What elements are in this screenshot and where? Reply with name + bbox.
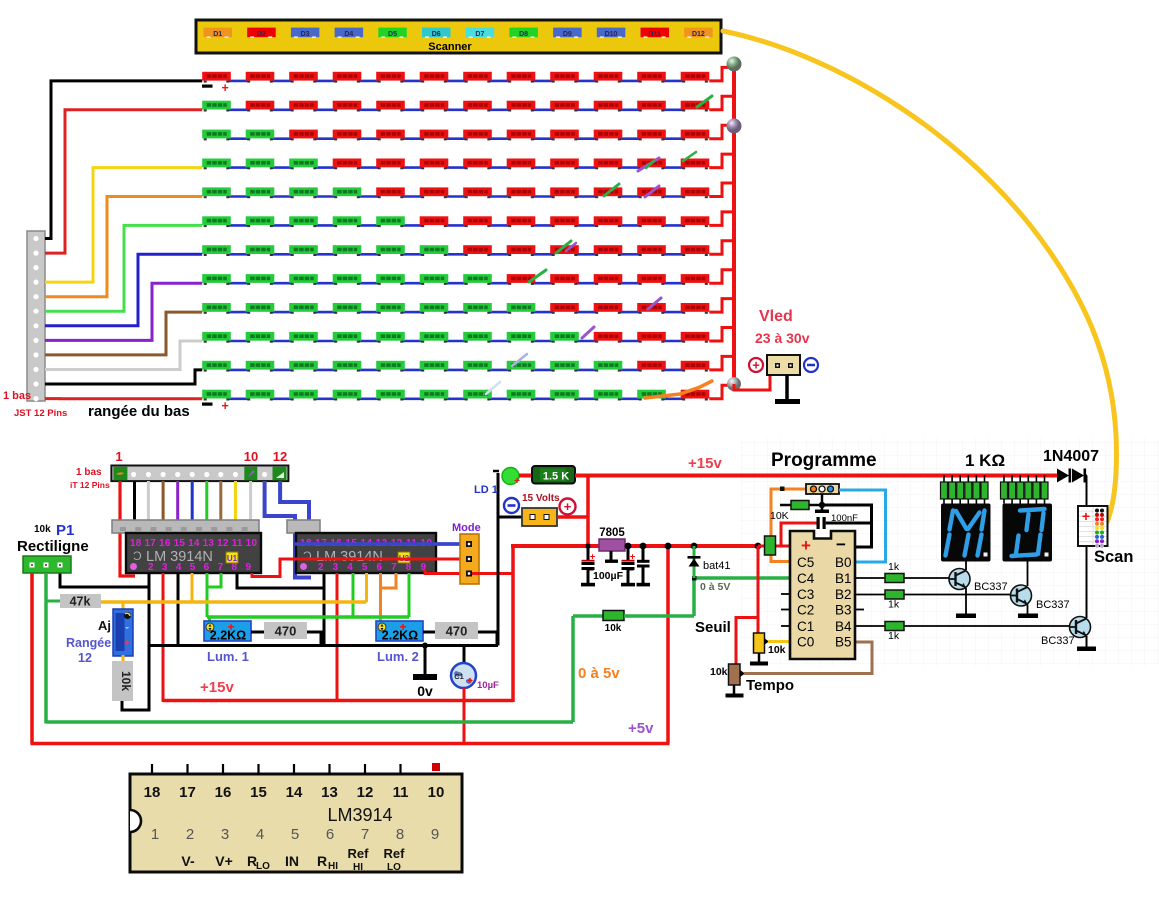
resistor 10k (green, 0-5V) (603, 611, 624, 621)
wire scan vertical (1086, 476, 1088, 619)
LED row7 col12 (681, 245, 710, 256)
wire strip pin11 blue to chip2 (265, 481, 311, 578)
svg-text:+: + (630, 552, 636, 563)
LED row2 col4 (333, 101, 362, 112)
minus symbol Vled (804, 358, 818, 372)
LED row3 col2 (246, 130, 275, 141)
wire row 1 to Vled bus (709, 67, 734, 81)
LED row8 col8 (507, 274, 536, 285)
wire strip drop x220 (219, 481, 222, 521)
LED row4 col8 (507, 159, 536, 170)
svg-text:iT 12 Pins: iT 12 Pins (70, 480, 110, 490)
ground T2 (1018, 614, 1038, 619)
wire black P1 pin3 (60, 572, 149, 587)
wire green chip2 pin4 (352, 573, 355, 617)
wire cyan B0 (839, 490, 886, 562)
wire red +5v down branch (666, 546, 670, 744)
LED row4 col9 (550, 159, 579, 170)
ground Tempo (733, 685, 736, 694)
junction sphere bottom (727, 377, 741, 391)
svg-text:D2: D2 (257, 31, 266, 38)
resistor 10k vertical (112, 661, 133, 701)
ground Vled (785, 375, 789, 400)
LED row10 col11 (637, 332, 666, 343)
LED row2 col10 (594, 101, 623, 112)
svg-text:+: + (124, 638, 130, 649)
LED row5 col7 (463, 187, 492, 198)
LED row8 col7 (463, 274, 492, 285)
LED row2 col8 (507, 101, 536, 112)
wire row 8 to Vled bus (709, 270, 734, 284)
wire red Tempo branch (736, 618, 758, 667)
LED row12 col3 (289, 390, 318, 401)
wire red chip1 pin9 to Mode (252, 559, 466, 577)
svg-text:1 bas: 1 bas (3, 390, 31, 402)
LED row10 col2 (246, 332, 275, 343)
wire blue to Mode pin1 (295, 542, 466, 546)
svg-text:C3: C3 (797, 587, 814, 602)
svg-text:IN: IN (285, 853, 299, 869)
Vled bus (732, 63, 736, 385)
svg-text:0 à 5V: 0 à 5V (700, 581, 730, 593)
LED row9 col6 (420, 303, 449, 314)
LED row9 col4 (333, 303, 362, 314)
svg-text:1k: 1k (888, 599, 900, 611)
wire black chip1 pin4 (177, 573, 180, 646)
LED row8 col5 (376, 274, 405, 285)
connector strip 1 bas (iT 12 pins) (111, 466, 288, 482)
wire JST pin12 to row 12 (red) (45, 397, 202, 400)
LED row1 col4 (333, 72, 362, 83)
wire row 10 to Vled bus (709, 328, 734, 342)
LED row11 col6 (420, 361, 449, 372)
ground T3 (1077, 647, 1096, 652)
IC U2 LM3914N (296, 533, 436, 573)
LED row7 col3 (289, 245, 318, 256)
diode bat41 (693, 546, 696, 578)
junction dot 0v (422, 643, 428, 649)
LED row5 col1 (202, 187, 231, 198)
LED row11 col7 (463, 361, 492, 372)
svg-text:D7: D7 (475, 31, 484, 38)
svg-text:C4: C4 (797, 571, 815, 586)
svg-text:13: 13 (321, 784, 338, 801)
wire row 4 series (blue) (228, 166, 684, 169)
svg-text:C5: C5 (797, 555, 814, 570)
wire JST pin5 to row 5 (45, 197, 202, 297)
LED row7 col6 (420, 245, 449, 256)
wire B4 to T3 (855, 625, 1070, 627)
svg-text:10k: 10k (605, 623, 622, 634)
LED row12 col12 (681, 390, 710, 401)
svg-text:8: 8 (396, 826, 404, 843)
LED row3 col1 (202, 130, 231, 141)
LED row3 col3 (289, 130, 318, 141)
svg-text:1N4007: 1N4007 (1043, 448, 1099, 465)
wire red chip2 pin9 to Mode bottom (425, 570, 513, 574)
svg-text:Vled: Vled (759, 308, 793, 325)
LED row10 col5 (376, 332, 405, 343)
wire green P1 wiper down (44, 573, 48, 724)
svg-text:Scan: Scan (1094, 548, 1133, 566)
svg-text:3: 3 (221, 826, 229, 843)
svg-text:1k: 1k (888, 630, 900, 642)
wire red P1 left down (30, 573, 34, 744)
scan artifacts (486, 96, 712, 394)
LED row4 col1 (202, 159, 231, 170)
LED row9 col3 (289, 303, 318, 314)
pinout top numbers (144, 784, 445, 801)
wire row 4 to Vled bus (709, 154, 734, 168)
svg-text:14: 14 (286, 784, 303, 801)
svg-text:9: 9 (431, 826, 439, 843)
LED row8 col2 (246, 274, 275, 285)
wire JST pin1 to row 1 (45, 81, 202, 239)
capacitor 100uF no2 (627, 546, 630, 561)
svg-text:B5: B5 (835, 635, 852, 650)
LED row7 col4 (333, 245, 362, 256)
scanner LED D3 (291, 28, 320, 38)
LED row1 col10 (594, 72, 623, 83)
trimmer Aj (113, 609, 133, 656)
LED row9 col8 (507, 303, 536, 314)
LED row1 col6 (420, 72, 449, 83)
resistor 470 no1 (251, 631, 264, 634)
wire red LD1 to 1.5K (519, 474, 533, 478)
wire JST pin7 to row 7 (45, 254, 202, 325)
svg-text:15: 15 (250, 784, 267, 801)
svg-text:JST 12 Pins: JST 12 Pins (14, 408, 67, 419)
green bus P1 to C4 (46, 720, 573, 724)
svg-text:+: + (467, 676, 473, 687)
wire red 5v rail (511, 544, 758, 548)
svg-text:D1: D1 (213, 31, 222, 38)
svg-text:15 Volts: 15 Volts (522, 493, 560, 504)
wire row 5 to Vled bus (709, 183, 734, 197)
LED row4 col10 (594, 159, 623, 170)
svg-text:B3: B3 (835, 603, 852, 618)
trimmer 2.2K no1 (204, 621, 251, 641)
LED row11 col5 (376, 361, 405, 372)
svg-text:10k: 10k (34, 524, 51, 535)
yellow tap to Aj (122, 602, 125, 610)
svg-text:B0: B0 (835, 555, 852, 570)
svg-text:+: + (1082, 508, 1090, 524)
svg-text:B4: B4 (835, 619, 852, 634)
LED row2 col2 (246, 101, 275, 112)
svg-text:V+: V+ (215, 853, 233, 869)
scanner LED D4 (335, 28, 364, 38)
wire strip drop x177 (176, 481, 179, 521)
LED row12 col11 (637, 390, 666, 401)
wire red Seuil vertical (757, 546, 760, 634)
wire green chip1 pin6 (206, 573, 209, 617)
LED row2 col1 (202, 101, 231, 112)
connector Vled (767, 355, 800, 375)
svg-text:18 17 16 15 14 13 12 11 10: 18 17 16 15 14 13 12 11 10 (130, 538, 257, 549)
socket U1 (112, 520, 259, 533)
svg-text:1 bas: 1 bas (76, 467, 102, 478)
wire row 12 to Vled bus (709, 385, 734, 399)
resistor 470 no2 (423, 631, 435, 634)
wire green jumper pins6-7 (208, 573, 221, 587)
LED row5 col6 (420, 187, 449, 198)
row12 polarity labels (202, 403, 213, 406)
wire black chip1/P1/10k vertical (122, 573, 149, 710)
svg-text:+: + (590, 552, 596, 563)
svg-text:D3: D3 (301, 31, 310, 38)
svg-text:LD 1: LD 1 (474, 484, 498, 496)
LED row8 col9 (550, 274, 579, 285)
svg-text:+: + (222, 399, 229, 413)
LED row12 col1 (202, 390, 231, 401)
scanner LED D1 (204, 28, 233, 38)
svg-text:+15v: +15v (200, 679, 234, 696)
LED row9 col9 (550, 303, 579, 314)
LED row1 col2 (246, 72, 275, 83)
svg-text:4: 4 (256, 826, 264, 843)
svg-text:C0: C0 (797, 635, 814, 650)
svg-text:1: 1 (151, 826, 159, 843)
wire red 15V connector to branch (557, 515, 588, 519)
svg-text:D8: D8 (519, 31, 528, 38)
svg-text:HI: HI (353, 862, 363, 873)
pin stub B3 (855, 609, 864, 611)
resistor Seuil 10k (yellow) (754, 633, 765, 653)
wire yellow Aj to 10k (122, 655, 125, 662)
LED row9 col1 (202, 303, 231, 314)
wire yellow chip2 pin6 (365, 573, 368, 602)
svg-text:7: 7 (361, 826, 369, 843)
wire bus to Vled connector (734, 376, 770, 390)
wire orange C5 net (771, 489, 806, 562)
svg-text:10k: 10k (768, 644, 786, 656)
pinout box LM3914 (130, 774, 462, 872)
svg-text:Ɔ: Ɔ (133, 549, 142, 563)
ground T1 (956, 614, 976, 619)
LED row6 col5 (376, 216, 405, 227)
LED row10 col12 (681, 332, 710, 343)
svg-text:10K: 10K (770, 510, 789, 522)
LED row6 col7 (463, 216, 492, 227)
scanner LED D12 (684, 28, 713, 38)
svg-text:+15v: +15v (688, 455, 722, 472)
wire row 6 to Vled bus (709, 212, 734, 226)
svg-text:10: 10 (244, 449, 258, 464)
row1 polarity labels (202, 85, 213, 88)
svg-text:18: 18 (144, 784, 161, 801)
yellow bus (99, 600, 367, 604)
wire row 12 series (blue) (228, 397, 684, 400)
scanner LED D5 (378, 28, 407, 38)
svg-text:2.2KΩ: 2.2KΩ (210, 629, 246, 643)
svg-text:17: 17 (179, 784, 196, 801)
LED row2 col7 (463, 101, 492, 112)
junction dots 5v rail (586, 544, 590, 548)
LED row11 col1 (202, 361, 231, 372)
scanner LED D2 (247, 28, 276, 38)
svg-text:LM3914: LM3914 (327, 805, 392, 825)
resistor Tempo 10k (brown) (729, 664, 741, 685)
LED row2 col5 (376, 101, 405, 112)
LED row10 col3 (289, 332, 318, 343)
wire JST pin10 to row 10 (45, 341, 202, 370)
svg-text:1 KΩ: 1 KΩ (965, 451, 1005, 470)
potentiometer P1 (23, 556, 71, 573)
wire blue to Mode pin1 (over U2) (295, 542, 466, 546)
scanner LED D7 (466, 28, 495, 38)
scanner LED D8 (509, 28, 538, 38)
LED row12 col5 (376, 390, 405, 401)
LED row5 col9 (550, 187, 579, 198)
LED row10 col7 (463, 332, 492, 343)
LED row3 col4 (333, 130, 362, 141)
resistor 1k B1 (885, 574, 904, 583)
LED row5 col4 (333, 187, 362, 198)
plus symbol 15V (560, 499, 576, 515)
svg-text:2 3 4 5 6 7 8 9: 2 3 4 5 6 7 8 9 (318, 562, 426, 573)
wire black cap loop (822, 505, 872, 547)
LED row5 col12 (681, 187, 710, 198)
svg-text:1: 1 (115, 449, 122, 464)
scanner LED D11 (641, 28, 670, 38)
LED row11 col8 (507, 361, 536, 372)
LED row4 col4 (333, 159, 362, 170)
junction sphere mid (727, 119, 742, 134)
LED row8 col4 (333, 274, 362, 285)
ground Seuil (758, 653, 761, 662)
LED LD1 (493, 470, 499, 473)
LED row7 col1 (202, 245, 231, 256)
svg-text:+: + (801, 536, 811, 555)
LED row10 col9 (550, 332, 579, 343)
svg-text:Ɔ: Ɔ (303, 549, 312, 563)
display 2 (D) (1003, 504, 1053, 562)
LED row7 col8 (507, 245, 536, 256)
LED row1 col8 (507, 72, 536, 83)
LED row1 col7 (463, 72, 492, 83)
transistor Q2 BC337 (1011, 585, 1032, 606)
svg-text:Tempo: Tempo (746, 677, 794, 694)
svg-text:Lum. 1: Lum. 1 (207, 649, 249, 664)
svg-text:5: 5 (291, 826, 299, 843)
wire strip drop x134 (133, 481, 136, 521)
svg-text:470: 470 (446, 624, 468, 639)
black 0v bus (149, 644, 498, 647)
LED row1 col11 (637, 72, 666, 83)
wire T2 emitter (1027, 605, 1029, 615)
green tap 2.2K no1 (208, 617, 211, 622)
wire scan curve (723, 31, 1116, 522)
wire red to + pin (758, 545, 791, 548)
svg-text:100nF: 100nF (831, 513, 858, 524)
wire row 3 to Vled bus (709, 125, 734, 139)
LED row6 col1 (202, 216, 231, 227)
LED row4 col2 (246, 159, 275, 170)
wire green to 47k (46, 600, 60, 603)
connector JST 12 pins (27, 231, 45, 401)
svg-text:LO: LO (387, 862, 401, 873)
LED row8 col12 (681, 274, 710, 285)
LED row2 col3 (289, 101, 318, 112)
LED row12 col6 (420, 390, 449, 401)
resistor 1k B4 (885, 622, 904, 631)
svg-text:1.5 K: 1.5 K (543, 471, 569, 483)
ground 0v (424, 645, 427, 675)
IC U1 LM3914N (126, 533, 261, 573)
pinout top ticks (152, 764, 401, 775)
wire JST pin4 to row 4 (45, 168, 202, 283)
svg-text:2: 2 (186, 826, 194, 843)
wire row 7 to Vled bus (709, 241, 734, 255)
svg-text:47k: 47k (70, 595, 91, 609)
svg-text:+: + (222, 81, 229, 95)
wire row 3 series (blue) (228, 137, 684, 140)
LED row9 col5 (376, 303, 405, 314)
wire yellow chip1 pin5 (191, 573, 194, 602)
wire red branch to 7805 bus (586, 476, 590, 547)
pin stubs C3 C2 C1 (781, 593, 790, 595)
wire brown B5 to Tempo (744, 642, 872, 674)
wire JST pin6 to row 6 (45, 225, 202, 311)
svg-text:B1: B1 (835, 571, 852, 586)
svg-text:D6: D6 (432, 31, 441, 38)
LED row10 col6 (420, 332, 449, 343)
svg-text:C2: C2 (797, 603, 814, 618)
wire orange jog pin8 (381, 573, 397, 588)
svg-text:BC337: BC337 (974, 581, 1008, 593)
svg-text:rangée du bas: rangée du bas (88, 403, 190, 420)
capacitor 100uF no1 (587, 546, 590, 561)
svg-text:12: 12 (273, 449, 287, 464)
LED row5 col8 (507, 187, 536, 198)
wire red +5v bottom bus (31, 742, 670, 746)
LED row7 col10 (594, 245, 623, 256)
LED row5 col11 (637, 187, 666, 198)
LED row8 col11 (637, 274, 666, 285)
wire red cap branch (781, 523, 817, 546)
svg-text:12: 12 (357, 784, 374, 801)
LED row1 col5 (376, 72, 405, 83)
LED row6 col3 (289, 216, 318, 227)
wire black prog connector center (821, 494, 824, 510)
svg-text:LO: LO (256, 861, 270, 872)
svg-text:D5: D5 (388, 31, 397, 38)
wire black chip2 pin2 (323, 573, 326, 646)
svg-text:Lum. 2: Lum. 2 (377, 649, 419, 664)
svg-text:+: + (564, 499, 572, 514)
LED row4 col11 (637, 159, 666, 170)
svg-text:Scanner: Scanner (428, 41, 472, 53)
LED row3 col9 (550, 130, 579, 141)
LED row10 col8 (507, 332, 536, 343)
resistor 10K prog (780, 504, 791, 507)
svg-text:BC337: BC337 (1036, 599, 1070, 611)
connector prog top (806, 484, 839, 494)
strip pin 10 block (244, 467, 257, 481)
resistor 47k (60, 594, 101, 608)
LED row4 col3 (289, 159, 318, 170)
LED row5 col3 (289, 187, 318, 198)
svg-text:D4: D4 (344, 31, 353, 38)
LED row12 col2 (246, 390, 275, 401)
capacitor 100nF (817, 517, 820, 529)
LED row3 col5 (376, 130, 405, 141)
green bus Lum (207, 615, 409, 619)
LED row3 col8 (507, 130, 536, 141)
wire red chip1 pin3 to +15v (162, 573, 165, 702)
svg-text:C1: C1 (797, 619, 814, 634)
